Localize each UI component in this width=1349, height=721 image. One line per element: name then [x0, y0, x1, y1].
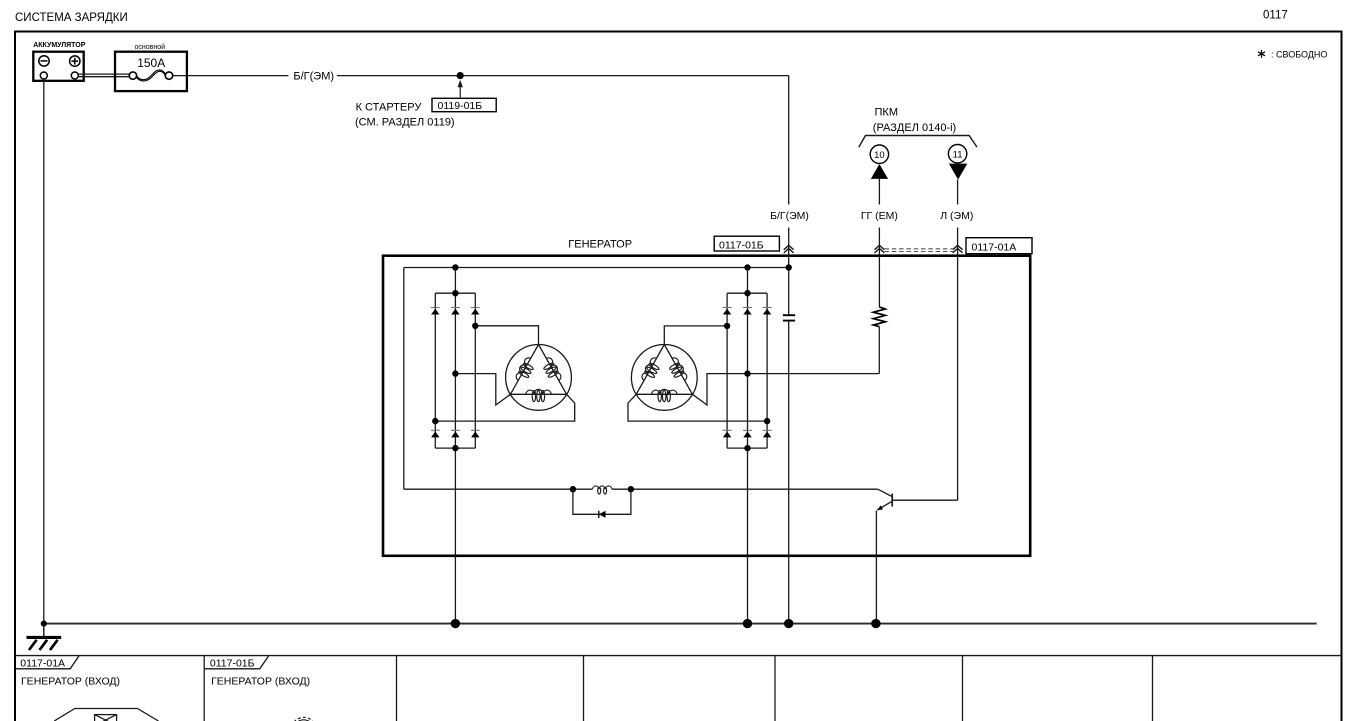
junction dot bridge2 top: [744, 290, 750, 296]
rectifier bridge 2 frame: [727, 268, 767, 624]
fuse element wavy link: [137, 70, 166, 81]
wire node A to corner: [337, 75, 789, 77]
flyback diode D13: [599, 511, 606, 518]
battery plus terminal symbol: [70, 56, 80, 66]
svg-text:СИСТЕМА ЗАРЯДКИ: СИСТЕМА ЗАРЯДКИ: [15, 12, 128, 24]
wire capacitor to ground rail: [788, 322, 790, 624]
diode D4: [431, 430, 440, 437]
legend asterisk star: [1258, 50, 1265, 58]
svg-text:150А: 150А: [137, 56, 165, 70]
svg-text:0117-01А: 0117-01А: [972, 242, 1017, 254]
junction dot bridge1 bottom: [452, 445, 458, 451]
wire Л(ЭМ) into generator: [957, 228, 959, 501]
diode D3: [471, 308, 480, 315]
table divider 4: [774, 656, 776, 721]
resistor R1 zigzag: [873, 307, 885, 327]
connector drawing cell2 circle: [291, 717, 316, 721]
stator winding W2 (delta): [631, 345, 697, 411]
junction dot rail bridge1: [451, 619, 460, 628]
wire internal top bus: [404, 267, 789, 269]
wire Л(ЭМ) upper segment: [957, 180, 959, 205]
fuse F1 box: [115, 52, 187, 91]
cell tab 0117-01А: [16, 656, 79, 669]
diode D9: [763, 308, 772, 315]
wire flyback branch: [573, 489, 631, 514]
diode D1: [431, 308, 440, 315]
svg-text:0119-01Б: 0119-01Б: [438, 100, 483, 112]
table top line: [15, 655, 1341, 657]
diode D2: [451, 308, 460, 315]
rectifier bridge 1 frame: [435, 268, 475, 624]
wire battery negative vertical: [43, 79, 45, 624]
junction dot rail bridge2: [743, 619, 752, 628]
svg-text:Б/Г(ЭМ): Б/Г(ЭМ): [293, 71, 334, 83]
table divider 3: [583, 656, 585, 721]
junction dot bus-bridge2: [744, 264, 750, 270]
wire bridge2 phase mid to winding2 right vertex and resistor: [692, 374, 879, 405]
svg-text:ПКМ: ПКМ: [875, 107, 898, 119]
wire ГГ(ЕМ) upper segment: [878, 179, 880, 205]
junction dot bridge2 phase mid: [744, 370, 750, 376]
junction dot bus-bridge1: [452, 264, 458, 270]
junction dot field left: [570, 486, 576, 492]
arrow to starter reference: [458, 80, 463, 98]
junction dot bridge1 phase bottom: [432, 418, 438, 424]
wire left internal vertical: [403, 268, 405, 490]
svg-text:основной: основной: [135, 43, 166, 51]
svg-text:: СВОБОДНО: : СВОБОДНО: [1271, 49, 1327, 59]
connector drawing cell1 octagon: [54, 709, 158, 721]
wire Б/Г(ЭМ) vertical into generator: [788, 228, 790, 316]
svg-text:10: 10: [874, 150, 885, 161]
junction dot bridge1 top: [452, 290, 458, 296]
diode D12: [763, 430, 772, 437]
wire bridge2 phase bottom to winding2 left vertex: [628, 394, 767, 421]
wire bridge1 phase mid to winding1 left vertex: [455, 374, 510, 405]
transistor Q1: [877, 489, 893, 510]
diode D11: [743, 430, 752, 437]
wire emitter to ground rail: [875, 511, 877, 624]
svg-text:ГЕНЕРАТОР (ВХОД): ГЕНЕРАТОР (ВХОД): [211, 675, 310, 687]
junction dot rail emitter: [871, 619, 880, 628]
svg-text:0117: 0117: [1263, 9, 1288, 21]
junction dot bridge1 phase top: [472, 323, 478, 329]
connector bracket ПКМ: [859, 136, 977, 148]
wire field circuit horizontal: [404, 488, 878, 490]
wire battery plus to fuse (double line): [78, 74, 129, 77]
svg-text:ГГ (ЕМ): ГГ (ЕМ): [861, 210, 898, 222]
connector chevron 0117-01Б: [784, 245, 794, 253]
wire bridge1 phase top to winding1 apex: [475, 326, 538, 345]
junction dot bridge1 phase mid: [452, 370, 458, 376]
junction dot bridge2 bottom: [744, 445, 750, 451]
svg-text:Л (ЭМ): Л (ЭМ): [940, 210, 973, 222]
svg-text:АККУМУЛЯТОР: АККУМУЛЯТОР: [33, 42, 86, 49]
reference box 0117-01Б: [714, 236, 779, 251]
diode D8: [743, 308, 752, 315]
svg-text:0117-01А: 0117-01А: [20, 657, 65, 669]
diode D5: [451, 430, 460, 437]
svg-text:0117-01Б: 0117-01Б: [719, 239, 764, 251]
wire bridge1 phase bottom to winding1 right vertex: [435, 394, 574, 421]
table divider 5: [962, 656, 964, 721]
node A junction dot: [457, 72, 464, 79]
cell tab 0117-01Б: [205, 656, 269, 669]
pin 10 circle: [870, 145, 888, 163]
svg-text:(РАЗДЕЛ 0140-i): (РАЗДЕЛ 0140-i): [873, 122, 956, 134]
junction dot battery-rail: [41, 621, 47, 627]
table divider 6: [1152, 656, 1154, 721]
svg-text:0117-01Б: 0117-01Б: [210, 657, 255, 669]
wire resistor bottom: [878, 327, 880, 374]
stator winding W1 (delta): [506, 345, 572, 411]
svg-text:11: 11: [953, 149, 963, 160]
wire transistor base from Л line: [892, 499, 957, 501]
diode D6: [471, 430, 480, 437]
connector chevron ГГ: [875, 245, 885, 253]
pin 11 arrow triangle down: [949, 164, 967, 180]
connector chevron Л: [953, 245, 963, 253]
ground rail wire: [44, 623, 1317, 625]
field winding L1 coil: [592, 486, 612, 494]
diode D10: [723, 430, 732, 437]
wire bridge2 phase top to winding2 apex: [664, 326, 727, 345]
generator U1 box: [383, 256, 1030, 556]
pin 10 arrow triangle up: [871, 164, 888, 179]
battery minus terminal symbol: [39, 56, 49, 66]
junction dot bridge2 phase top: [724, 323, 730, 329]
svg-text:ГЕНЕРАТОР: ГЕНЕРАТОР: [568, 238, 632, 250]
battery plus post circle: [71, 72, 78, 79]
fuse terminal circles: [129, 72, 136, 79]
junction dot bus-БГ line: [786, 264, 792, 270]
diode D7: [723, 308, 732, 315]
table divider 1: [203, 656, 205, 721]
table divider 2: [396, 656, 398, 721]
junction dot field right: [628, 486, 634, 492]
dashed link between chevrons: [885, 249, 954, 252]
pin 11 circle: [948, 145, 966, 163]
reference box 0117-01А: [966, 238, 1032, 254]
junction dot bridge2 phase bottom: [764, 418, 770, 424]
wire ГГ(ЕМ) into generator: [878, 228, 880, 307]
ground symbol: [27, 624, 62, 650]
wire fuse to node A (label gap): [173, 75, 289, 77]
junction dot rail capacitor: [784, 619, 793, 628]
svg-text:(СМ. РАЗДЕЛ 0119): (СМ. РАЗДЕЛ 0119): [355, 116, 455, 128]
svg-text:Б/Г(ЭМ): Б/Г(ЭМ): [770, 210, 809, 222]
battery B1 box: [33, 52, 83, 81]
battery minus post circle: [40, 72, 47, 79]
svg-text:ГЕНЕРАТОР (ВХОД): ГЕНЕРАТОР (ВХОД): [21, 675, 120, 687]
wire Б/Г(ЭМ) vertical upper: [788, 76, 790, 205]
capacitor C1 plates: [783, 315, 795, 320]
svg-text:К СТАРТЕРУ: К СТАРТЕРУ: [356, 101, 423, 113]
reference box 0119-01Б: [432, 98, 496, 111]
